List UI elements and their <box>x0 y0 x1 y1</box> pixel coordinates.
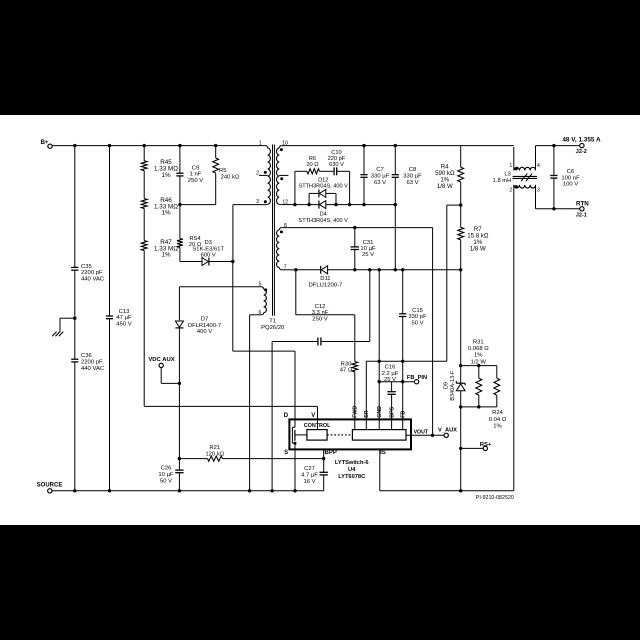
svg-text:D4: D4 <box>320 211 327 217</box>
svg-text:L3: L3 <box>504 172 510 178</box>
svg-text:4.7 µF: 4.7 µF <box>301 473 318 479</box>
svg-text:J2-1: J2-1 <box>576 213 587 219</box>
svg-text:1: 1 <box>259 141 262 147</box>
svg-text:400 V: 400 V <box>197 329 212 335</box>
svg-text:R6: R6 <box>309 156 316 162</box>
svg-text:B+: B+ <box>40 139 48 146</box>
svg-text:C6: C6 <box>567 169 575 175</box>
svg-text:BPS: BPS <box>389 406 395 417</box>
svg-text:2: 2 <box>256 171 259 177</box>
svg-text:R24: R24 <box>492 410 504 416</box>
svg-text:47 Ω: 47 Ω <box>340 367 353 373</box>
svg-text:4: 4 <box>537 163 540 169</box>
svg-text:SOURCE: SOURCE <box>37 482 63 488</box>
svg-text:BPP: BPP <box>325 450 337 456</box>
svg-text:50 V: 50 V <box>411 321 423 327</box>
svg-text:2200 pF: 2200 pF <box>81 270 103 276</box>
svg-text:C26: C26 <box>161 466 173 472</box>
svg-text:DFLU1200-7: DFLU1200-7 <box>309 282 343 288</box>
svg-text:C7: C7 <box>376 167 384 173</box>
svg-text:B340A-13-F: B340A-13-F <box>450 370 456 401</box>
svg-text:GND: GND <box>377 406 383 418</box>
svg-text:LYTSwitch-6: LYTSwitch-6 <box>335 460 369 466</box>
svg-text:S: S <box>284 450 288 456</box>
svg-text:RTN: RTN <box>576 200 589 207</box>
svg-text:C16: C16 <box>385 365 396 371</box>
svg-text:250 V: 250 V <box>312 317 327 323</box>
svg-text:100 nF: 100 nF <box>561 175 580 181</box>
svg-text:47 µF: 47 µF <box>116 315 132 321</box>
svg-text:C10: C10 <box>331 150 341 156</box>
svg-text:VOUT: VOUT <box>414 429 429 435</box>
svg-text:2.2 µF: 2.2 µF <box>382 371 399 377</box>
svg-text:PQ26/20: PQ26/20 <box>261 325 285 331</box>
svg-text:450 V: 450 V <box>116 321 131 327</box>
svg-text:250 V: 250 V <box>188 178 203 184</box>
svg-text:C36: C36 <box>81 353 93 359</box>
svg-text:12: 12 <box>282 199 288 205</box>
svg-text:DFLR1400-7: DFLR1400-7 <box>188 323 221 329</box>
svg-text:330 µF: 330 µF <box>371 174 390 180</box>
svg-text:FB: FB <box>401 411 407 418</box>
svg-text:1/8 W: 1/8 W <box>437 183 453 190</box>
svg-text:C9: C9 <box>192 165 200 171</box>
svg-text:3.3 nF: 3.3 nF <box>312 310 329 316</box>
svg-text:330 pF: 330 pF <box>408 314 427 320</box>
svg-text:D3: D3 <box>204 240 211 246</box>
svg-text:FB_PIN: FB_PIN <box>407 375 427 381</box>
svg-text:63 V: 63 V <box>406 180 418 186</box>
svg-text:C15: C15 <box>412 308 424 314</box>
svg-text:D7: D7 <box>201 316 208 322</box>
svg-text:D: D <box>284 413 289 419</box>
svg-text:J2-2: J2-2 <box>576 149 587 155</box>
svg-text:63 V: 63 V <box>374 180 386 186</box>
svg-text:VDC AUX: VDC AUX <box>148 357 174 363</box>
svg-text:25 V: 25 V <box>362 252 374 258</box>
svg-text:V: V <box>311 413 315 419</box>
svg-text:T1: T1 <box>269 319 276 325</box>
svg-text:LYT6078C: LYT6078C <box>338 474 365 480</box>
svg-text:C13: C13 <box>119 309 131 315</box>
svg-text:D11: D11 <box>320 276 330 282</box>
svg-text:C12: C12 <box>315 304 326 310</box>
svg-text:100 V: 100 V <box>563 182 578 188</box>
svg-text:1.8 mH: 1.8 mH <box>493 178 512 184</box>
svg-text:120 kΩ: 120 kΩ <box>205 451 224 457</box>
svg-text:3: 3 <box>537 187 540 193</box>
svg-text:240 kΩ: 240 kΩ <box>221 174 240 180</box>
svg-text:C8: C8 <box>409 167 417 173</box>
svg-text:FWD: FWD <box>353 406 359 418</box>
svg-text:C27: C27 <box>304 466 315 472</box>
svg-text:440 VAC: 440 VAC <box>81 277 105 283</box>
svg-text:48 V, 1.355 A: 48 V, 1.355 A <box>562 136 601 143</box>
svg-text:S1K-E3/61T: S1K-E3/61T <box>192 246 224 252</box>
svg-text:20 Ω: 20 Ω <box>306 162 318 168</box>
svg-text:R21: R21 <box>209 445 220 451</box>
svg-text:RS4: RS4 <box>189 236 201 242</box>
svg-text:440 VAC: 440 VAC <box>81 366 105 372</box>
svg-text:6: 6 <box>258 310 261 316</box>
svg-text:2: 2 <box>509 187 512 193</box>
svg-text:8: 8 <box>284 223 287 229</box>
svg-text:RS+: RS+ <box>480 442 492 448</box>
svg-text:D9: D9 <box>443 382 449 389</box>
svg-text:16 V: 16 V <box>303 479 315 485</box>
svg-text:330 µF: 330 µF <box>403 174 422 180</box>
svg-text:1%: 1% <box>161 252 171 259</box>
svg-text:10 µF: 10 µF <box>158 472 174 478</box>
svg-text:1%: 1% <box>493 423 502 429</box>
svg-text:1/2 W: 1/2 W <box>471 359 487 365</box>
svg-text:V_AUX: V_AUX <box>438 428 457 434</box>
svg-text:STTH3R04S, 400 V: STTH3R04S, 400 V <box>298 184 348 190</box>
svg-text:1: 1 <box>509 163 512 169</box>
svg-text:1 nF: 1 nF <box>190 172 202 178</box>
svg-text:IS: IS <box>380 450 386 456</box>
svg-text:1%: 1% <box>161 210 171 217</box>
svg-text:600 V: 600 V <box>201 253 216 259</box>
svg-text:3: 3 <box>256 199 259 205</box>
svg-text:STTH3R04S, 400 V: STTH3R04S, 400 V <box>298 218 348 224</box>
svg-text:1/8 W: 1/8 W <box>470 245 486 252</box>
svg-text:U4: U4 <box>348 467 356 473</box>
svg-text:220 pF: 220 pF <box>328 156 346 162</box>
svg-text:630 V: 630 V <box>329 162 344 168</box>
svg-text:1%: 1% <box>474 353 483 359</box>
svg-text:0.068 Ω: 0.068 Ω <box>468 346 489 352</box>
svg-text:2200 pF: 2200 pF <box>81 360 103 366</box>
svg-text:0.04 Ω: 0.04 Ω <box>489 417 507 423</box>
svg-text:25 V: 25 V <box>384 377 396 383</box>
svg-text:50 V: 50 V <box>160 479 172 485</box>
svg-text:R5: R5 <box>219 168 227 174</box>
svg-text:5: 5 <box>258 282 261 288</box>
svg-text:SR: SR <box>364 410 370 418</box>
svg-text:7: 7 <box>284 264 287 270</box>
svg-text:C35: C35 <box>81 264 93 270</box>
svg-text:1%: 1% <box>161 172 171 179</box>
svg-text:R31: R31 <box>473 340 484 346</box>
svg-text:10: 10 <box>282 141 288 147</box>
svg-text:PI-9210-082520: PI-9210-082520 <box>476 495 514 501</box>
